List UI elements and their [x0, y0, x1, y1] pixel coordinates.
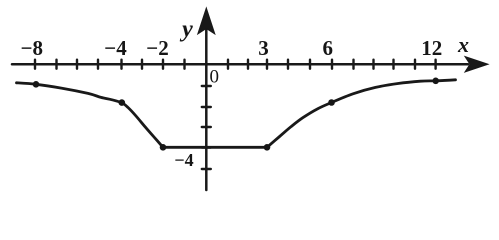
tick x=-2	[162, 60, 164, 69]
tick x=1	[227, 60, 229, 69]
tick x=-5	[97, 60, 99, 69]
tick x=-1	[183, 60, 185, 69]
svg-text:6: 6	[322, 36, 333, 60]
curve	[17, 80, 456, 148]
point (-8,-1)	[33, 81, 40, 88]
tick x=11	[434, 60, 436, 69]
svg-text:12: 12	[421, 36, 442, 60]
y-axis	[205, 29, 208, 190]
tick y=-2	[202, 106, 211, 108]
tick x=10	[414, 60, 416, 69]
svg-text:−4: −4	[174, 150, 193, 170]
svg-text:−8: −8	[21, 36, 43, 60]
point (12,-1)	[432, 78, 439, 85]
tick x=6	[331, 60, 333, 69]
x-axis arrowhead	[465, 57, 488, 73]
point (-2,-4)	[160, 144, 167, 151]
tick x=9	[392, 60, 394, 69]
tick x=-3	[141, 60, 143, 69]
tick x=-6	[76, 60, 78, 69]
svg-text:−2: −2	[146, 36, 168, 60]
svg-text:−4: −4	[104, 36, 127, 60]
svg-text:y: y	[179, 17, 193, 43]
svg-text:3: 3	[258, 36, 269, 60]
tick x=-7	[55, 60, 57, 69]
svg-text:x: x	[457, 32, 469, 57]
tick x=5	[309, 60, 311, 69]
tick x=2	[247, 60, 249, 69]
tick x=-8	[34, 60, 36, 69]
tick y=-1	[202, 85, 211, 87]
tick y=-4	[202, 146, 211, 148]
point (6,-2)	[328, 99, 335, 106]
point (3,-4)	[264, 144, 271, 151]
point (-4,-2)	[119, 99, 126, 106]
y-axis arrowhead	[198, 8, 215, 34]
tick x=4	[287, 60, 289, 69]
tick x=3	[266, 60, 268, 69]
tick x=-4	[120, 60, 122, 69]
tick y=-3	[202, 126, 211, 128]
tick y=-5	[202, 168, 211, 170]
x-axis	[12, 63, 468, 66]
tick x=8	[372, 60, 374, 69]
x ticks	[35, 60, 436, 69]
tick x=7	[352, 60, 354, 69]
svg-text:0: 0	[210, 66, 220, 87]
y ticks	[202, 86, 211, 169]
